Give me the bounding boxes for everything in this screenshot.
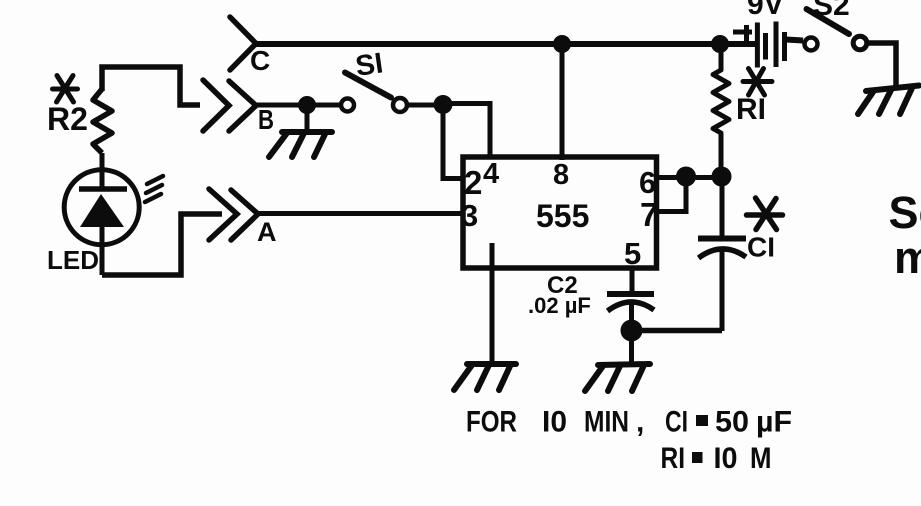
asterisk (R2) — [53, 76, 78, 103]
wire — [256, 41, 756, 47]
svg-text:µF: µF — [756, 406, 792, 439]
svg-text:CI: CI — [665, 406, 688, 439]
svg-text:C: C — [250, 45, 270, 76]
svg-text:RI: RI — [736, 93, 766, 126]
LED D1 — [64, 153, 139, 275]
wire — [407, 103, 443, 108]
svg-text:m: m — [894, 232, 921, 283]
battery 9V — [733, 0, 818, 68]
asterisk (R1) — [743, 69, 772, 96]
wire — [629, 331, 634, 365]
connector B — [203, 80, 307, 135]
svg-text:5: 5 — [624, 236, 641, 271]
svg-text:2: 2 — [464, 164, 482, 201]
wire — [657, 177, 686, 212]
wire pin 5 — [630, 268, 635, 292]
switch S1 — [341, 47, 407, 112]
junction — [676, 167, 696, 187]
note text — [466, 406, 792, 439]
wire — [657, 175, 722, 180]
svg-text:555: 555 — [536, 198, 589, 234]
wire — [258, 211, 463, 216]
wire — [443, 105, 463, 179]
wire — [632, 328, 723, 334]
connector C — [230, 17, 270, 76]
svg-text:M: M — [750, 442, 772, 475]
svg-text:4: 4 — [483, 158, 499, 190]
asterisk (C1) — [747, 198, 783, 230]
resistor R2 — [93, 89, 112, 153]
svg-text:,: , — [636, 406, 644, 439]
svg-text:I0: I0 — [542, 406, 567, 439]
capacitor C2 — [607, 294, 654, 331]
wire — [102, 67, 200, 105]
svg-text:6: 6 — [639, 165, 656, 200]
svg-text:CI: CI — [747, 232, 775, 263]
resistor R1 — [713, 48, 729, 177]
svg-text:3: 3 — [461, 198, 478, 233]
capacitor C1 — [698, 177, 746, 331]
svg-text:A: A — [257, 217, 277, 247]
svg-text:RI: RI — [661, 442, 686, 475]
ground — [269, 132, 332, 157]
wire — [307, 103, 341, 108]
svg-text:B: B — [258, 104, 274, 135]
svg-text:9V: 9V — [747, 0, 784, 21]
ground — [858, 86, 919, 115]
note text 2 — [661, 442, 772, 475]
junction — [712, 167, 732, 187]
svg-text:FOR: FOR — [466, 406, 517, 439]
connector A — [209, 189, 277, 247]
svg-text:7: 7 — [640, 196, 658, 233]
svg-text:.02 µF: .02 µF — [528, 293, 591, 318]
junction — [711, 35, 729, 53]
LED rays — [145, 176, 163, 202]
svg-text:MIN: MIN — [584, 406, 629, 439]
wire — [560, 44, 565, 160]
svg-text:Se: Se — [889, 187, 921, 238]
svg-text:SI: SI — [354, 47, 386, 83]
IC U1 555 — [463, 157, 657, 268]
svg-text:S2: S2 — [813, 0, 850, 22]
svg-text:I0: I0 — [714, 442, 738, 475]
ground — [454, 364, 516, 390]
svg-text:R2: R2 — [47, 101, 88, 137]
wire — [868, 43, 897, 87]
svg-text:8: 8 — [553, 159, 569, 191]
wire — [102, 214, 222, 275]
svg-text:50: 50 — [715, 406, 749, 439]
junction — [621, 320, 643, 342]
svg-text:LED: LED — [47, 245, 99, 275]
junction — [434, 95, 453, 114]
switch S2 — [807, 0, 867, 50]
ground — [585, 364, 650, 391]
wire — [305, 105, 310, 132]
junction — [298, 96, 316, 114]
junction — [553, 35, 571, 53]
wire — [443, 104, 490, 158]
pin 1 stub and wire — [490, 243, 495, 364]
